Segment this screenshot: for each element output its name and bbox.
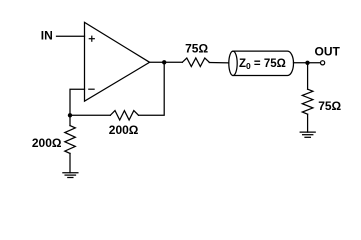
wire feedback node down to 200ohm ground resistor xyxy=(69,115,71,125)
svg-text:IN: IN xyxy=(41,28,53,42)
node output junction xyxy=(162,60,166,64)
wire down to shunt resistor xyxy=(307,63,309,89)
pin - (inverting input) xyxy=(89,88,94,90)
ground right xyxy=(300,132,315,137)
svg-text:Z0 = 75Ω: Z0 = 75Ω xyxy=(239,58,286,71)
wire inverting input to feedback node xyxy=(70,89,85,115)
label Z0 = 75ohm xyxy=(239,58,286,71)
label 75ohm shunt xyxy=(318,99,341,113)
svg-text:75Ω: 75Ω xyxy=(318,99,341,113)
label 200ohm feedback xyxy=(109,123,139,137)
node OUT label xyxy=(315,44,341,58)
svg-text:200Ω: 200Ω xyxy=(32,136,62,150)
coax cable Z0=75ohm xyxy=(229,51,294,75)
svg-text:OUT: OUT xyxy=(315,44,341,58)
wire op-amp output xyxy=(150,61,183,63)
node output dot xyxy=(305,61,309,65)
wire 200ohm resistor to ground xyxy=(69,153,71,172)
op-amp U1 xyxy=(85,22,150,101)
wire coax to OUT xyxy=(294,62,321,64)
resistor 200ohm to ground xyxy=(65,126,76,154)
node feedback junction xyxy=(68,113,72,117)
label 200ohm ground resistor xyxy=(32,136,62,150)
wire IN to op-amp + input xyxy=(57,35,85,37)
node OUT terminal xyxy=(321,61,325,65)
svg-text:75Ω: 75Ω xyxy=(185,42,208,56)
svg-text:200Ω: 200Ω xyxy=(109,123,139,137)
node IN label xyxy=(41,28,53,42)
wire feedback node to 200ohm feedback resistor xyxy=(70,114,110,116)
ground left xyxy=(63,173,78,178)
label 75ohm series xyxy=(185,42,208,56)
resistor 75ohm series xyxy=(182,58,209,67)
wire resistor to coax xyxy=(209,62,229,64)
resistor 75ohm shunt xyxy=(302,89,313,114)
wire feedback resistor to output node xyxy=(139,62,165,115)
wire shunt resistor to ground xyxy=(307,114,309,132)
pin + (non-inverting input) xyxy=(89,36,94,41)
resistor 200ohm feedback xyxy=(110,111,138,120)
